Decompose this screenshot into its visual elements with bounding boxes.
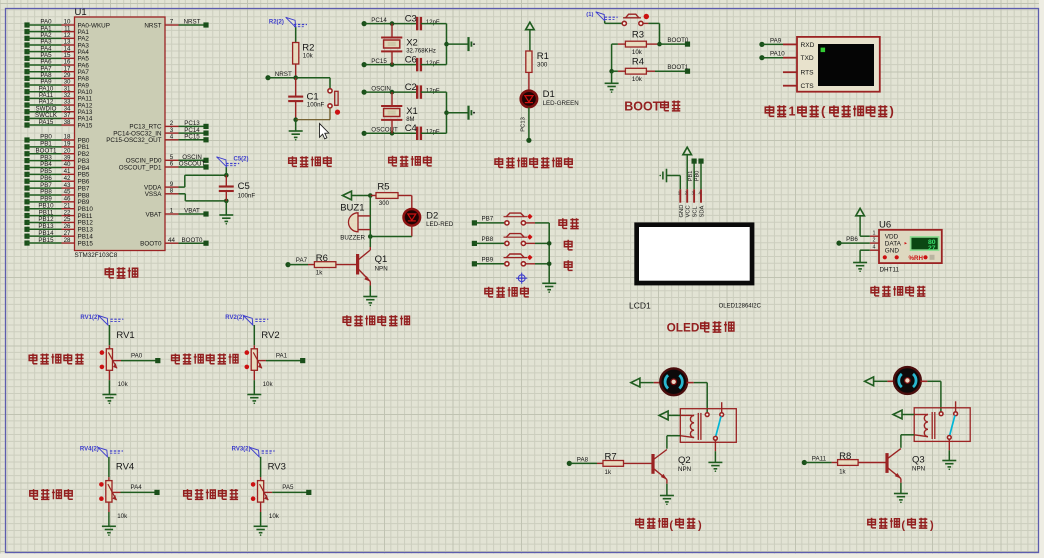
svg-text:NRST: NRST [144, 22, 161, 29]
svg-text:DHT11: DHT11 [880, 267, 900, 274]
svg-text:VBAT: VBAT [146, 211, 162, 218]
svg-text:OSCOUT: OSCOUT [179, 161, 206, 168]
svg-text:7: 7 [170, 19, 174, 26]
svg-text:U1: U1 [75, 7, 87, 18]
svg-text:PB6: PB6 [846, 236, 858, 243]
svg-text:RV2(2): RV2(2) [225, 315, 244, 321]
svg-text:X1: X1 [406, 106, 418, 117]
svg-text:C6: C6 [405, 54, 417, 65]
svg-text:1: 1 [789, 104, 796, 118]
svg-text:PC13: PC13 [521, 117, 527, 132]
svg-text:PC14: PC14 [371, 17, 387, 24]
svg-text:10k: 10k [269, 513, 280, 520]
svg-text:2: 2 [873, 237, 876, 243]
svg-text:): ) [890, 104, 894, 119]
svg-text:Q3: Q3 [912, 454, 925, 465]
svg-text:PA11: PA11 [812, 455, 827, 462]
svg-text:PC15: PC15 [371, 58, 387, 65]
svg-text:DATA: DATA [885, 241, 902, 248]
svg-text:27: 27 [928, 245, 936, 252]
svg-text:GND: GND [885, 248, 900, 255]
svg-text:R8: R8 [839, 451, 851, 462]
svg-text:TXD: TXD [801, 55, 814, 62]
svg-text:OLED: OLED [667, 321, 700, 335]
svg-text:LED-RED: LED-RED [426, 221, 454, 228]
svg-text:BUZZER: BUZZER [340, 235, 365, 242]
svg-text:(: ( [821, 104, 826, 119]
svg-text:PB15: PB15 [38, 237, 54, 244]
svg-text:R5: R5 [377, 182, 389, 193]
svg-text:NRST: NRST [184, 19, 201, 26]
svg-text:4: 4 [873, 245, 876, 251]
svg-text:BOOT0: BOOT0 [182, 237, 204, 244]
svg-text:(1): (1) [586, 12, 593, 18]
svg-text:%RH: %RH [909, 255, 924, 262]
svg-text:OSCOUT_PD1: OSCOUT_PD1 [119, 164, 162, 171]
svg-text:STM32F103C8: STM32F103C8 [75, 252, 118, 259]
svg-text:PA15: PA15 [39, 119, 54, 126]
svg-text:SDA: SDA [700, 205, 706, 217]
svg-text:PB9: PB9 [482, 257, 494, 264]
svg-text:10k: 10k [263, 381, 274, 388]
svg-text:RV2: RV2 [261, 330, 279, 341]
svg-text:NPN: NPN [912, 465, 925, 472]
svg-text:X2: X2 [406, 38, 418, 49]
svg-text:PA5: PA5 [282, 484, 294, 491]
svg-text:PA9: PA9 [770, 37, 782, 44]
svg-text:R3: R3 [632, 30, 644, 41]
svg-text:RV4: RV4 [116, 462, 134, 473]
svg-text:32.768KHz: 32.768KHz [406, 49, 436, 55]
svg-text:PA0: PA0 [131, 352, 143, 359]
svg-text:300: 300 [537, 62, 548, 69]
svg-text:C2: C2 [405, 82, 417, 93]
svg-text:100nF: 100nF [238, 193, 256, 200]
svg-text:D1: D1 [543, 89, 555, 100]
svg-text:1k: 1k [605, 469, 612, 476]
svg-text:BOOT1: BOOT1 [667, 64, 689, 71]
svg-text:28: 28 [64, 237, 71, 244]
svg-text:C3: C3 [405, 13, 417, 24]
svg-text:10k: 10k [632, 49, 643, 56]
svg-text:RV4(2): RV4(2) [80, 447, 99, 453]
svg-text:38: 38 [64, 119, 71, 126]
svg-text:RV3(2): RV3(2) [232, 447, 251, 453]
svg-text:CTS: CTS [801, 83, 815, 90]
svg-text:10k: 10k [303, 53, 314, 60]
svg-text:C4: C4 [405, 123, 417, 134]
svg-text:GND: GND [679, 205, 685, 218]
svg-text:VBAT: VBAT [184, 208, 200, 215]
svg-text:NRST: NRST [275, 71, 292, 78]
svg-text:LCD1: LCD1 [629, 301, 651, 311]
svg-text:OSCIN: OSCIN [371, 86, 391, 93]
svg-text:44: 44 [168, 237, 175, 244]
svg-text:C5(2): C5(2) [234, 157, 249, 163]
svg-text:10k: 10k [117, 513, 128, 520]
svg-text:BOOT0: BOOT0 [667, 37, 689, 44]
svg-text:R6: R6 [316, 253, 328, 264]
svg-text:PA7: PA7 [296, 257, 308, 264]
svg-text:BOOT0: BOOT0 [140, 241, 162, 248]
svg-text:PC15-OSC32_OUT: PC15-OSC32_OUT [106, 137, 161, 144]
svg-text:6: 6 [170, 161, 174, 168]
svg-text:10k: 10k [632, 76, 643, 83]
svg-text:D2: D2 [426, 211, 438, 222]
svg-text:100nF: 100nF [307, 102, 325, 109]
svg-text:VCC: VCC [686, 205, 692, 217]
svg-text:R2(2): R2(2) [269, 20, 284, 26]
svg-text:R7: R7 [605, 452, 617, 463]
svg-text:PA4: PA4 [131, 484, 143, 491]
svg-text:300: 300 [379, 201, 390, 207]
svg-text:LED-GREEN: LED-GREEN [543, 100, 579, 107]
svg-text:RTS: RTS [801, 70, 815, 77]
svg-text:SCL: SCL [693, 205, 699, 217]
svg-text:1: 1 [170, 208, 174, 215]
svg-text:PB8: PB8 [482, 236, 494, 243]
svg-text:1: 1 [873, 231, 876, 237]
svg-text:4: 4 [170, 134, 174, 141]
svg-text:10k: 10k [118, 381, 129, 388]
svg-text:PB7: PB7 [482, 216, 494, 223]
svg-text:PA8: PA8 [577, 456, 589, 463]
svg-text:RXD: RXD [801, 42, 815, 49]
svg-text:RV3: RV3 [268, 462, 286, 473]
svg-text:PA15: PA15 [78, 122, 93, 129]
svg-text:(: ( [669, 520, 673, 532]
svg-text:BOOT: BOOT [624, 100, 660, 114]
svg-text:RV1(2): RV1(2) [80, 315, 99, 321]
svg-text:): ) [930, 520, 934, 532]
svg-text:Q2: Q2 [678, 455, 691, 466]
svg-text:C5: C5 [238, 181, 250, 192]
svg-text:OLED12864I2C: OLED12864I2C [719, 304, 762, 310]
svg-text:PB1: PB1 [688, 171, 694, 182]
svg-text:PC15: PC15 [184, 134, 200, 141]
svg-text:PB15: PB15 [78, 240, 94, 247]
svg-text:PB0: PB0 [695, 171, 701, 182]
svg-text:1k: 1k [316, 270, 323, 277]
svg-text:RV1: RV1 [116, 330, 134, 341]
svg-text:8M: 8M [406, 117, 414, 123]
svg-text:VSSA: VSSA [145, 191, 163, 198]
svg-text:BUZ1: BUZ1 [340, 203, 364, 214]
svg-text:U6: U6 [879, 219, 891, 230]
svg-text:Q1: Q1 [375, 254, 388, 265]
svg-text:): ) [698, 520, 702, 532]
svg-text:1k: 1k [839, 468, 846, 475]
svg-text:NPN: NPN [678, 466, 691, 473]
svg-text:(: ( [901, 520, 905, 532]
svg-text:PA1: PA1 [276, 352, 288, 359]
svg-text:R1: R1 [537, 51, 549, 62]
svg-text:R4: R4 [632, 57, 644, 68]
svg-text:PA10: PA10 [770, 51, 785, 58]
svg-text:NPN: NPN [375, 266, 388, 273]
